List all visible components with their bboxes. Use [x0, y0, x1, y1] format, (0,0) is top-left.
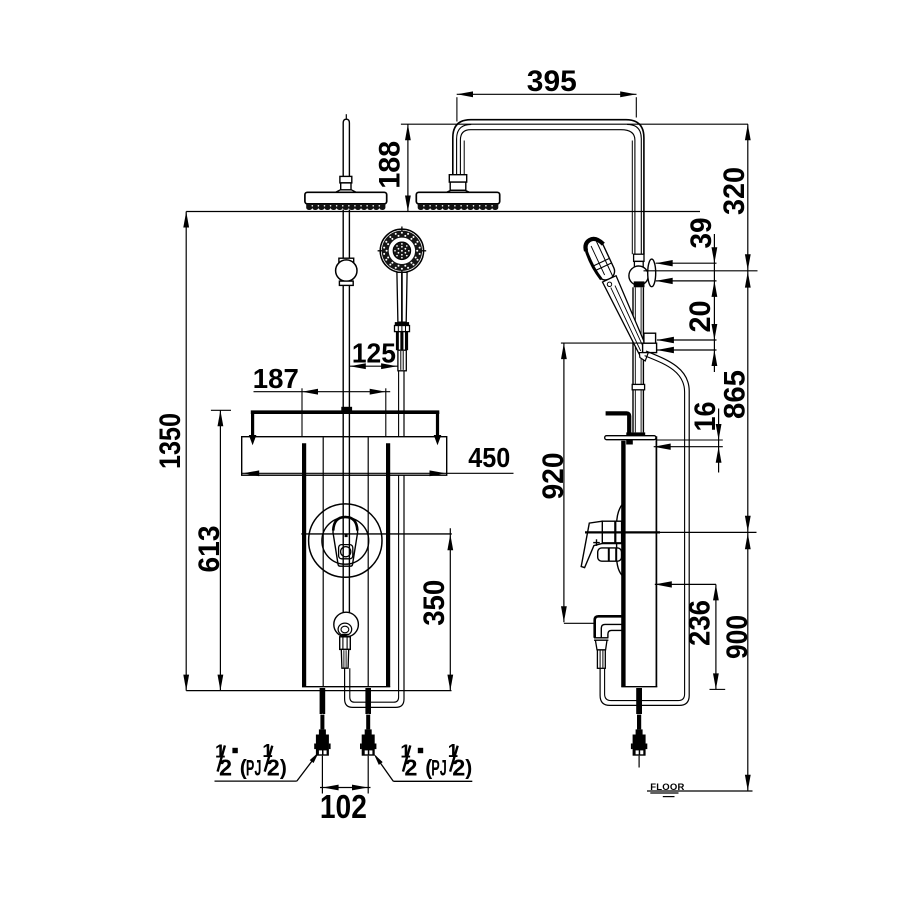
svg-text:FLOOR: FLOOR [650, 782, 684, 793]
svg-text:): ) [465, 757, 472, 780]
svg-text:450: 450 [468, 442, 510, 473]
svg-text:16: 16 [689, 402, 722, 432]
svg-text:320: 320 [718, 167, 751, 215]
svg-text:): ) [280, 757, 287, 780]
svg-text:236: 236 [684, 600, 717, 646]
svg-text:395: 395 [527, 65, 577, 98]
svg-text:2: 2 [452, 755, 465, 781]
svg-text:900: 900 [721, 615, 754, 659]
svg-text:2: 2 [404, 755, 417, 781]
svg-text:187: 187 [253, 363, 299, 394]
svg-text:2: 2 [267, 755, 280, 781]
svg-text:102: 102 [320, 788, 367, 825]
svg-text:865: 865 [718, 370, 751, 419]
svg-text:PJ: PJ [431, 756, 447, 781]
svg-text:PJ: PJ [246, 756, 262, 781]
svg-text:613: 613 [193, 526, 226, 573]
svg-text:188: 188 [374, 141, 407, 189]
svg-text:125: 125 [352, 337, 396, 368]
svg-text:39: 39 [685, 218, 718, 249]
svg-text:1350: 1350 [154, 413, 187, 469]
svg-text:2: 2 [219, 755, 232, 781]
svg-text:350: 350 [418, 580, 451, 626]
svg-text:920: 920 [537, 453, 570, 500]
svg-text:20: 20 [684, 301, 717, 333]
